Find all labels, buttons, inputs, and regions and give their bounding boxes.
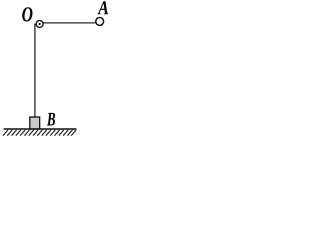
label O [22, 7, 32, 21]
block B [30, 117, 40, 129]
label A [97, 1, 108, 14]
ground line [4, 128, 77, 130]
node A: ring at point A [96, 17, 104, 25]
background [0, 0, 111, 146]
wire: vertical string from pulley O down to block B [34, 24, 36, 118]
node O: pulley circle with axle dot [36, 21, 43, 28]
label B [47, 113, 55, 126]
wire: horizontal string O to A [40, 22, 100, 24]
ground hatching [3, 130, 76, 136]
